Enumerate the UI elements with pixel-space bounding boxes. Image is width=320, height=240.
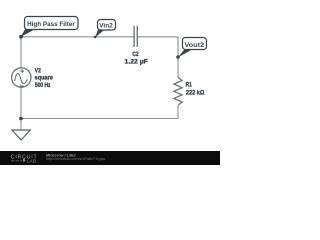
svg-text:High Pass Filter: High Pass Filter [27,21,75,28]
svg-text:V2: V2 [35,68,41,75]
svg-text:C2: C2 [132,51,138,58]
svg-text:LAB: LAB [27,158,37,163]
svg-text:R1: R1 [186,82,193,89]
svg-text:square: square [35,75,54,82]
svg-text:222 kΩ: 222 kΩ [186,90,205,97]
svg-text:Vin2: Vin2 [99,22,113,29]
svg-text:500 Hz: 500 Hz [35,82,51,89]
svg-text:http://circuitlab.com/c/47a8c7: http://circuitlab.com/c/47a8c71/gqw [46,157,106,161]
svg-text:Vout2: Vout2 [185,42,205,49]
svg-text:1.22 µF: 1.22 µF [125,58,148,65]
